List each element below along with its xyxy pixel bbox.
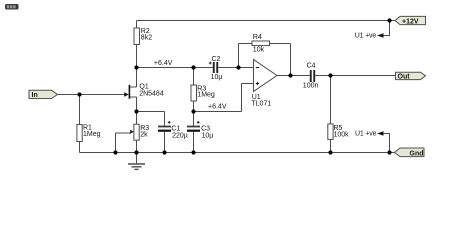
wire R5 top lead [330,76,332,124]
resistor R4 [252,34,270,54]
svg-text:U1 +ve: U1 +ve [355,131,377,138]
wire ground rail [80,152,395,154]
svg-text:U1 +ve: U1 +ve [355,33,377,40]
wire C4 to Out flag [315,75,395,77]
wire Q1 source vertical [136,97,138,112]
wire U1 +ve supply stub top [384,21,390,36]
svg-text:R4: R4 [253,34,262,41]
node wiper ground junction [113,150,117,154]
node R3a ground junction [134,150,138,154]
wire feedback top left to R4 [239,43,253,45]
capacitor C4 [303,62,319,89]
wire drain node rail to C2 [137,67,213,69]
wire Q1 drain vertical [136,68,138,88]
node feedback junction [236,65,240,69]
wire op-amp non-inverting input vertical [241,84,243,112]
svg-text:In: In [32,92,38,99]
svg-text:Out: Out [398,73,411,80]
wire Q1 source lead [130,96,137,98]
wire source node to C1 [137,111,165,113]
wire C2 right plate to op-amp inverting input [218,67,253,69]
node output junction [288,73,292,77]
op-amp U1 [251,60,277,108]
svg-text:10µ: 10µ [202,133,214,140]
wire U1 -ve supply stub bottom [384,134,390,153]
svg-text:1Meg: 1Meg [83,131,101,138]
wire feedback right vertical to output [290,44,292,76]
wire R1 top lead [79,95,81,125]
wire op-amp non-inverting input horizontal [242,83,254,85]
wire reference node horizontal [194,111,242,113]
wire C3 bottom lead [193,132,195,153]
wire Q1 drain lead [130,86,137,88]
svg-text:+12V: +12V [402,18,419,25]
capacitor C1 [158,121,188,140]
wire R4 right to feedback right vertical [270,43,291,45]
svg-text:C3: C3 [201,125,210,132]
capacitor C2 [209,56,223,81]
wire +12V top rail [137,20,396,22]
resistor R1 [77,125,101,142]
node U1 +ve label bottom [355,131,384,138]
svg-text:2k: 2k [140,131,148,138]
wire R5 bottom lead [330,139,332,152]
svg-text:C2: C2 [212,56,221,63]
wire C1 bottom lead [164,132,166,153]
wire R3b bottom lead [193,101,195,112]
capacitor C3 [187,121,213,140]
svg-text:+6.4V: +6.4V [154,60,173,67]
node R3b top junction [191,65,195,69]
node Gnd power flag [395,148,425,157]
wire C3 top lead [193,112,195,126]
wire R2 bottom lead to drain node [136,45,138,68]
wire C1 top lead [164,112,166,126]
svg-text:C1: C1 [171,125,180,132]
node +12V power flag [395,16,426,25]
node C3 ground junction [191,150,195,154]
node +12V junction [387,18,391,22]
wire feedback left vertical [238,44,240,68]
wire gate from In to Q1 [58,94,125,96]
resistor R3 2k trimmer [130,124,149,140]
svg-text:1Meg: 1Meg [197,92,215,99]
svg-text:C4: C4 [307,62,316,69]
wire trimmer wiper horizontal [116,132,131,134]
node In port flag [29,90,58,99]
node Gnd junction [387,150,391,154]
node R5 ground junction [328,150,332,154]
node drain junction [134,65,138,69]
wire trimmer wiper vertical [115,133,117,153]
svg-text:+6.4V: +6.4V [208,104,227,111]
wire op-amp output to C4 [277,75,310,77]
resistor R5 [328,124,349,139]
svg-text:8k2: 8k2 [141,34,152,41]
transistor Q1 [124,84,164,99]
wire R2 top lead [136,21,138,29]
node C1 ground junction [162,150,166,154]
svg-text:2N5484: 2N5484 [139,90,164,97]
node gate junction [77,92,81,96]
node out coupling junction [328,73,332,77]
resistor R3 1Meg [191,85,215,101]
svg-text:10k: 10k [253,46,265,53]
node source junction [134,109,138,113]
node Out port flag [396,72,426,80]
wire R3a bottom lead [136,140,138,152]
wire R3b top lead from drain rail [193,68,195,86]
svg-text:100n: 100n [303,83,319,90]
node reference junction [191,109,195,113]
ground [136,153,138,164]
wire R3a top lead [136,112,138,125]
svg-text:Gnd: Gnd [410,150,424,157]
resistor R2 [134,28,152,45]
ESP logo badge [5,4,19,10]
svg-text:220µ: 220µ [172,133,188,140]
svg-text:100k: 100k [334,131,350,138]
svg-text:10µ: 10µ [211,74,223,81]
wire R1 bottom lead [79,142,81,153]
svg-text:TL071: TL071 [251,100,271,107]
node U1 +ve label top [355,33,384,40]
